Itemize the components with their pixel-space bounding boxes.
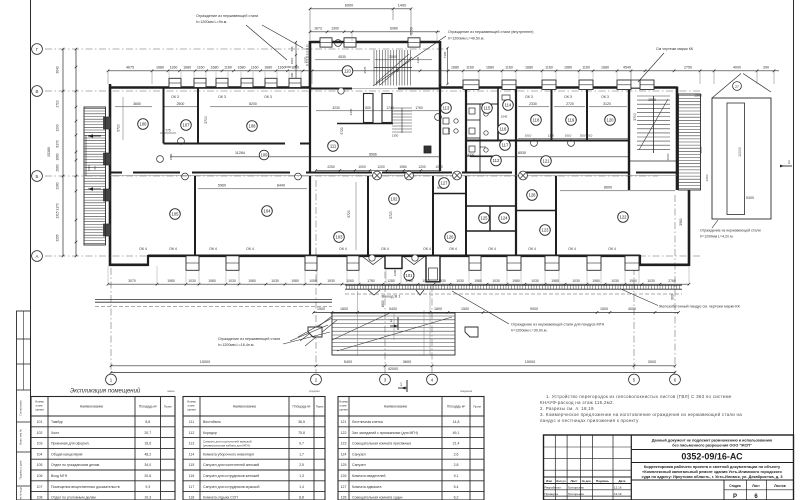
svg-text:60: 60	[93, 166, 97, 170]
svg-text:1160: 1160	[278, 65, 286, 69]
svg-text:1680: 1680	[238, 65, 246, 69]
svg-text:123: 123	[341, 442, 347, 446]
svg-text:h=1200мм L=49,5п.м.: h=1200мм L=49,5п.м.	[448, 37, 484, 41]
notes text block	[540, 393, 742, 423]
svg-text:2710: 2710	[56, 100, 60, 107]
corridor dim 11284	[170, 151, 440, 157]
svg-text:110: 110	[344, 69, 351, 74]
wall between rooms 105 and 104	[194, 176, 196, 256]
svg-text:См чертежи марки КК: См чертежи марки КК	[656, 47, 694, 51]
room 103 circle	[334, 232, 345, 243]
svg-text:15,6: 15,6	[144, 442, 151, 446]
svg-text:128: 128	[529, 193, 537, 198]
svg-text:Железобетонный пандус см. черт: Железобетонный пандус см. чертежи марки …	[659, 305, 741, 309]
room 123 circle	[540, 225, 551, 236]
svg-text:1160: 1160	[251, 65, 259, 69]
svg-text:ОК 3: ОК 3	[601, 95, 609, 99]
svg-text:средняя: средняя	[309, 389, 320, 393]
corridor upper wall right section	[466, 140, 629, 142]
svg-text:118: 118	[533, 118, 540, 123]
platform mark circle	[733, 82, 742, 91]
wall between rooms 107 and 108	[197, 88, 199, 144]
room 127 circle	[439, 178, 450, 189]
room 118 circle	[531, 115, 542, 126]
svg-text:КНАУФ-расход на этаж 115,2м2.: КНАУФ-расход на этаж 115,2м2.	[540, 400, 614, 405]
svg-text:120: 120	[607, 118, 615, 123]
svg-text:104: 104	[264, 209, 272, 214]
window labels OK4	[139, 247, 616, 251]
tambour 101 east pier	[426, 256, 440, 282]
label ograzhdenie pandus MGN	[452, 291, 605, 333]
outer wall left	[109, 84, 112, 266]
wall rooms 123-122 divider	[555, 176, 557, 256]
door mark circles	[157, 114, 575, 180]
svg-text:1030: 1030	[492, 279, 500, 283]
svg-text:Санузел для сотрудников мужско: Санузел для сотрудников мужской	[203, 485, 259, 489]
left dimension chain inner	[56, 48, 78, 258]
svg-text:5750: 5750	[410, 27, 414, 35]
svg-text:1160: 1160	[224, 65, 232, 69]
svg-text:1980: 1980	[291, 279, 299, 283]
svg-text:117: 117	[189, 485, 195, 489]
room 126 circle	[445, 232, 456, 243]
room 116 circle	[498, 124, 509, 135]
svg-text:Коридор: Коридор	[203, 431, 217, 435]
svg-text:1500: 1500	[461, 307, 469, 311]
room 102 circle	[389, 194, 400, 205]
label ograzhdenie 9m top left	[196, 14, 303, 60]
svg-text:4530: 4530	[338, 55, 346, 59]
svg-text:111: 111	[330, 144, 337, 149]
svg-text:112: 112	[189, 431, 195, 435]
svg-text:125: 125	[481, 216, 489, 221]
svg-text:12.16: 12.16	[614, 492, 622, 496]
svg-text:117: 117	[502, 143, 509, 148]
svg-text:106: 106	[140, 122, 148, 127]
wall rooms 118 west	[515, 88, 517, 256]
svg-text:103: 103	[37, 442, 43, 446]
pandus dimension chain	[312, 307, 680, 314]
svg-text:1,3: 1,3	[299, 474, 304, 478]
svg-text:5960: 5960	[218, 184, 226, 188]
svg-text:3070: 3070	[128, 279, 136, 283]
svg-text:121: 121	[341, 420, 347, 424]
svg-text:1680: 1680	[486, 65, 494, 69]
svg-text:6,2: 6,2	[454, 496, 459, 500]
svg-text:ОК 4: ОК 4	[423, 247, 431, 251]
svg-text:ОК 4: ОК 4	[339, 247, 347, 251]
svg-text:101: 101	[406, 273, 414, 278]
wall room 102 east	[432, 176, 434, 256]
room 108 circle	[247, 121, 258, 132]
room 122 circle	[618, 212, 629, 223]
room 121 circle	[541, 156, 552, 167]
svg-text:105: 105	[172, 212, 180, 217]
dimension 1673 1300 6980	[309, 26, 440, 41]
svg-text:Проверка: Проверка	[545, 492, 559, 496]
svg-text:Площадь м²: Площадь м²	[292, 405, 310, 409]
svg-text:5720: 5720	[347, 210, 351, 218]
entrance block top windows	[320, 38, 420, 47]
svg-text:1980: 1980	[512, 279, 520, 283]
sheet right frame line	[793, 0, 795, 500]
svg-text:1980: 1980	[208, 279, 216, 283]
svg-text:5,4: 5,4	[454, 485, 459, 489]
svg-text:42000: 42000	[388, 367, 399, 371]
WC south cluster walls	[466, 206, 516, 231]
svg-text:1780: 1780	[405, 279, 413, 283]
svg-text:20,8: 20,8	[144, 474, 151, 478]
corridor upper wall left section	[164, 143, 311, 145]
room 107 circle	[181, 120, 192, 131]
svg-text:8600: 8600	[604, 186, 612, 190]
WC cluster small dims	[447, 115, 508, 157]
wall room 126 west cluster	[465, 176, 467, 256]
dimension 6000 1400 top	[309, 3, 413, 40]
svg-text:1200: 1200	[377, 165, 385, 169]
WC cluster divider wall	[497, 88, 499, 141]
svg-text:2750: 2750	[684, 65, 692, 69]
bottom axis circles	[106, 374, 117, 385]
svg-text:121: 121	[543, 159, 551, 164]
svg-text:1350: 1350	[392, 133, 399, 137]
column marks on corridor wall	[373, 171, 528, 180]
outer wall bottom-right step	[639, 190, 689, 266]
room 110 circle	[342, 66, 353, 77]
axis line 5	[633, 268, 635, 373]
wall between rooms 104 and 103	[309, 176, 311, 256]
left ramp hatch	[84, 107, 106, 245]
svg-text:5400: 5400	[389, 307, 397, 311]
svg-text:114: 114	[505, 103, 512, 108]
top main dimension chain	[107, 65, 779, 72]
svg-text:2570: 2570	[363, 66, 367, 73]
svg-text:115: 115	[189, 463, 195, 467]
svg-text:№ док.: № док.	[582, 479, 592, 483]
dark column block	[424, 146, 431, 153]
svg-text:3000: 3000	[648, 360, 656, 364]
tambour 101 west pier	[385, 256, 402, 269]
svg-text:Вход МГН: Вход МГН	[51, 474, 68, 478]
svg-text:1680: 1680	[211, 65, 219, 69]
svg-text:1160: 1160	[466, 65, 474, 69]
svg-text:1800: 1800	[434, 307, 442, 311]
svg-text:h=1200мм L=4,2п.м.: h=1200мм L=4,2п.м.	[700, 235, 734, 239]
svg-text:Григорьева: Григорьева	[568, 486, 584, 490]
svg-text:20,7: 20,7	[144, 431, 151, 435]
svg-text:10000: 10000	[738, 147, 742, 157]
svg-text:Взам. инв.№: Взам. инв.№	[19, 429, 23, 445]
left small dims	[86, 135, 97, 176]
svg-text:1000: 1000	[358, 165, 366, 169]
svg-text:Выход В 1: Выход В 1	[381, 294, 401, 299]
svg-text:Наименование: Наименование	[233, 405, 257, 409]
svg-text:106: 106	[37, 474, 43, 478]
svg-text:4540: 4540	[623, 65, 631, 69]
svg-text:112: 112	[493, 158, 500, 163]
svg-text:3000: 3000	[389, 55, 397, 59]
axis line 6	[674, 195, 676, 373]
wall below shafts	[337, 123, 393, 125]
svg-text:Ограждение из нержавеющей стал: Ограждение из нержавеющей стали для панд…	[511, 323, 605, 327]
svg-text:Комната отдыха ССП: Комната отдыха ССП	[203, 496, 238, 500]
room dims 5960 8440	[198, 184, 307, 189]
svg-text:1010: 1010	[565, 134, 572, 138]
svg-text:2. Разрезы см. л. 18,19: 2. Разрезы см. л. 18,19	[540, 406, 594, 411]
svg-text:1160: 1160	[545, 65, 553, 69]
right zone small rotated dims	[666, 146, 709, 181]
explication table 2	[183, 397, 325, 500]
svg-text:800: 800	[365, 106, 371, 110]
svg-text:Инв.№ подл.: Инв.№ подл.	[19, 486, 23, 500]
svg-text:1030: 1030	[647, 279, 655, 283]
wall between rooms 119 and 120	[586, 88, 588, 141]
svg-text:102: 102	[391, 197, 399, 202]
entrance block inner dims	[304, 47, 449, 85]
svg-text:h=1200мм L=16,4п.м.: h=1200мм L=16,4п.м.	[218, 343, 254, 347]
outer wall bottom-left step	[109, 255, 148, 266]
stair annex treads	[637, 96, 670, 153]
label sm chertezhi KK	[638, 47, 694, 82]
svg-text:113: 113	[189, 442, 195, 446]
svg-text:119: 119	[568, 118, 575, 123]
left wall pilasters	[104, 117, 111, 236]
section mark 2 right	[780, 160, 792, 168]
svg-text:2500: 2500	[177, 102, 185, 106]
svg-text:Вестибюль: Вестибюль	[203, 420, 221, 424]
svg-text:9170: 9170	[56, 203, 60, 210]
windows OK4 bottom	[186, 256, 639, 270]
axis circle Б	[32, 171, 43, 182]
svg-text:840: 840	[290, 46, 294, 51]
svg-text:Отдел по уголовным делам: Отдел по уголовным делам	[51, 496, 96, 500]
svg-text:2610: 2610	[87, 164, 91, 171]
svg-text:1030: 1030	[228, 279, 236, 283]
svg-text:суда по адресу: Иркутская обла: суда по адресу: Иркутская область, г. Ус…	[641, 474, 783, 479]
svg-text:1160: 1160	[505, 65, 513, 69]
stair annex east wall	[676, 87, 679, 191]
svg-text:1060: 1060	[346, 279, 354, 283]
title block frame	[544, 435, 794, 500]
svg-text:пандус и лестницах приложения: пандус и лестницах приложения к проекту	[540, 418, 639, 423]
axis line 1	[110, 268, 112, 373]
svg-text:5720: 5720	[117, 124, 121, 132]
room 112 circle	[491, 155, 502, 166]
svg-text:Прим: Прим	[164, 405, 172, 409]
svg-text:левое: левое	[167, 389, 175, 393]
svg-text:1050: 1050	[309, 279, 317, 283]
room 125 circle	[479, 213, 490, 224]
bottom stair left planter	[308, 327, 322, 337]
svg-text:8530: 8530	[518, 151, 526, 155]
axis circle А	[32, 251, 43, 262]
exterior stair hatch right	[679, 94, 701, 190]
corridor dim 8530	[470, 151, 628, 157]
left walkway double line	[95, 300, 332, 307]
svg-text:1400: 1400	[398, 3, 406, 7]
front wall through entrance block	[310, 88, 440, 90]
svg-text:127: 127	[341, 485, 347, 489]
svg-text:114: 114	[189, 452, 195, 456]
svg-text:101: 101	[37, 420, 43, 424]
axis line Г	[45, 48, 448, 50]
svg-text:Стадия: Стадия	[729, 484, 741, 488]
svg-text:3230: 3230	[332, 106, 340, 110]
svg-text:Дата: Дата	[619, 479, 626, 483]
thin corridor floor line	[110, 175, 677, 177]
svg-text:36,5: 36,5	[298, 420, 305, 424]
svg-text:ОК 3: ОК 3	[525, 95, 533, 99]
svg-text:126: 126	[447, 235, 455, 240]
svg-text:1300: 1300	[331, 26, 339, 30]
svg-text:Зал заседаний с присяжными (дл: Зал заседаний с присяжными (для МГН)	[352, 431, 418, 435]
svg-text:щения: щения	[187, 408, 196, 412]
svg-text:1030: 1030	[611, 279, 619, 283]
svg-text:104: 104	[37, 452, 43, 456]
svg-text:1680: 1680	[264, 65, 272, 69]
svg-text:5400: 5400	[344, 360, 352, 364]
corridor lower wall segments	[110, 172, 677, 174]
svg-text:1010: 1010	[290, 57, 294, 64]
svg-text:1780: 1780	[367, 279, 375, 283]
window extension lines top	[169, 72, 631, 81]
svg-text:Ограждение из нержавеющей стал: Ограждение из нержавеющей стали	[700, 229, 761, 233]
room 120 circle	[605, 115, 616, 126]
explication table 3	[338, 397, 484, 500]
wall between rooms 103 and 102	[367, 176, 369, 256]
svg-text:Комната свидетелей: Комната свидетелей	[352, 474, 385, 478]
entrance block inner west wall	[309, 88, 311, 173]
svg-text:1200: 1200	[393, 269, 397, 276]
svg-text:А: А	[36, 254, 39, 259]
svg-text:щения: щения	[35, 408, 44, 412]
svg-text:Площадь м²: Площадь м²	[447, 405, 465, 409]
svg-text:1680: 1680	[156, 65, 164, 69]
wall room 127 bottom	[433, 193, 466, 195]
svg-text:2,8: 2,8	[454, 463, 459, 467]
svg-text:Тамбур: Тамбур	[51, 420, 63, 424]
svg-text:3600: 3600	[403, 360, 411, 364]
wall room 113 west	[465, 88, 467, 173]
left dimension chain outer	[47, 48, 64, 258]
axis line Б	[45, 175, 658, 177]
room 115 circle	[482, 103, 493, 114]
svg-text:1,7: 1,7	[299, 452, 304, 456]
svg-text:1160: 1160	[582, 65, 590, 69]
room 114 circle	[503, 100, 514, 111]
svg-text:ОК 4: ОК 4	[139, 247, 147, 251]
svg-text:Подпись: Подпись	[596, 479, 609, 483]
svg-text:111: 111	[189, 420, 194, 424]
svg-text:Изм: Изм	[546, 479, 553, 483]
svg-text:2720: 2720	[566, 102, 574, 106]
svg-text:1010: 1010	[525, 134, 532, 138]
pandus railing hatched band	[345, 285, 682, 289]
svg-text:Санузел для посетителей женски: Санузел для посетителей женский	[203, 463, 259, 467]
room 128 circle	[527, 190, 538, 201]
svg-text:1545: 1545	[501, 115, 508, 119]
window extension lines bottom	[108, 266, 689, 287]
room 104 circle	[262, 206, 273, 217]
corridor column dims	[315, 165, 443, 172]
svg-text:Санузел для сотрудников женски: Санузел для сотрудников женский	[203, 474, 259, 478]
svg-text:9000: 9000	[530, 307, 538, 311]
svg-text:15380: 15380	[47, 147, 51, 157]
svg-text:3285: 3285	[56, 234, 60, 241]
svg-text:3700: 3700	[633, 113, 637, 121]
svg-text:Наименование: Наименование	[80, 405, 104, 409]
svg-text:9,1: 9,1	[454, 474, 459, 478]
svg-text:1680: 1680	[291, 65, 299, 69]
block west wall dims	[285, 41, 297, 85]
title block texts	[545, 439, 786, 500]
svg-text:11284: 11284	[235, 151, 245, 155]
svg-text:Б: Б	[36, 174, 39, 179]
svg-text:27: 27	[735, 85, 739, 89]
svg-text:1160: 1160	[197, 65, 205, 69]
room 111 circle	[328, 141, 339, 152]
svg-text:1500: 1500	[694, 94, 702, 98]
svg-text:ОК 3: ОК 3	[171, 95, 179, 99]
bottom window dimension chain	[107, 279, 691, 286]
svg-text:1000: 1000	[666, 153, 670, 160]
label ograzhdenie vnutrennee	[373, 30, 534, 86]
svg-text:1. Устройство перегородок из г: 1. Устройство перегородок из гипсоволокн…	[546, 393, 732, 399]
svg-text:h=1200мм L=30,0п.м.: h=1200мм L=30,0п.м.	[511, 329, 547, 333]
pandus dashed centerline	[345, 293, 682, 295]
bottom entrance stair	[300, 291, 455, 356]
svg-text:21,4: 21,4	[453, 442, 460, 446]
axis line 2	[315, 180, 317, 373]
svg-text:5720: 5720	[340, 127, 344, 134]
svg-text:3120: 3120	[603, 102, 611, 106]
svg-text:1080: 1080	[422, 279, 430, 283]
svg-text:Экспликация помещений: Экспликация помещений	[70, 388, 141, 395]
svg-text:1930: 1930	[438, 279, 446, 283]
svg-text:1980: 1980	[167, 279, 175, 283]
svg-text:108: 108	[37, 496, 43, 500]
sheet left frame line	[30, 0, 32, 500]
label ograzhdenie 4,2m right	[700, 220, 761, 239]
svg-text:1930: 1930	[327, 279, 335, 283]
wall room 128 bottom	[516, 210, 556, 212]
axis line А	[45, 255, 700, 257]
svg-text:4675: 4675	[126, 65, 134, 69]
svg-text:12.16: 12.16	[614, 486, 622, 490]
outer wall top right section	[440, 86, 677, 89]
window labels OK3	[171, 95, 609, 99]
svg-text:ОК 4: ОК 4	[449, 247, 457, 251]
svg-text:Санузел: Санузел	[352, 452, 366, 456]
svg-text:1000: 1000	[435, 165, 443, 169]
label zhelezobetonny pandus	[622, 290, 741, 309]
svg-text:сведения: сведения	[460, 389, 473, 393]
explication table 1	[31, 397, 175, 500]
svg-text:107: 107	[183, 123, 191, 128]
room 106 circle	[138, 119, 149, 130]
svg-text:116: 116	[189, 474, 195, 478]
right outdoor platform	[712, 74, 771, 220]
svg-text:Помещения вещественных доказат: Помещения вещественных доказательств	[51, 485, 120, 489]
svg-text:Р: Р	[733, 494, 737, 500]
svg-text:115: 115	[484, 106, 491, 111]
svg-text:128: 128	[341, 496, 347, 500]
svg-text:49,1: 49,1	[453, 431, 460, 435]
door dims 775 and 1800	[160, 129, 176, 161]
svg-text:8200: 8200	[249, 102, 257, 106]
svg-text:1280: 1280	[387, 279, 395, 283]
block lower dims	[316, 106, 440, 156]
